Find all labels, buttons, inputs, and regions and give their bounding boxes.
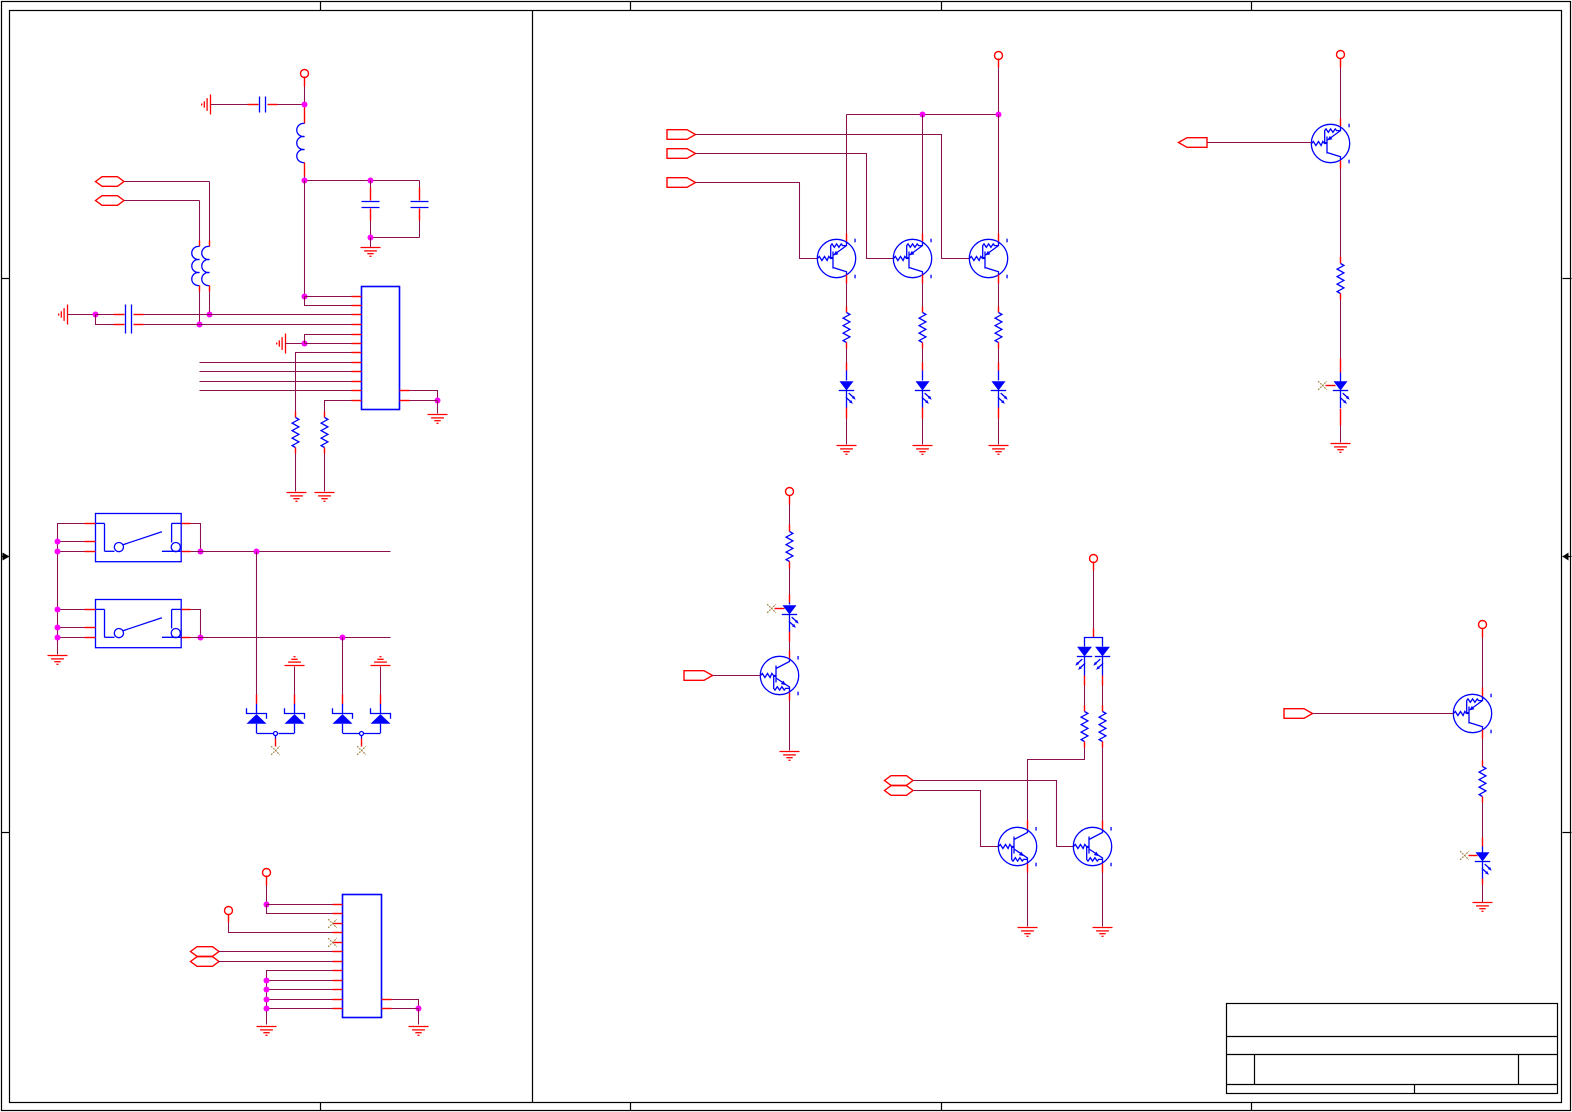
- wire: [199, 201, 201, 241]
- wire to U2 pin7: [219, 961, 333, 963]
- wire to U1 pin5: [305, 335, 352, 344]
- wire IN4 to Q4 base: [713, 675, 761, 677]
- resistor R6a: [1081, 712, 1088, 742]
- wire: [1340, 300, 1342, 359]
- no-connect X U2 pin5: [328, 938, 337, 947]
- wire to U2 pin6: [219, 951, 333, 953]
- wire U1 pin12 right: [410, 400, 438, 402]
- wire row to U1 pin3: [144, 314, 352, 316]
- wire U1 pin12 to R2: [325, 401, 352, 412]
- ground G16: [1331, 444, 1351, 453]
- wire: [125, 200, 200, 202]
- wire S1 output: [191, 551, 391, 553]
- port IN2: [667, 149, 696, 159]
- no-ERC X at LED D5: [767, 604, 776, 613]
- wire: [1482, 739, 1484, 761]
- LED D5: [789, 603, 791, 605]
- TVS diode D1a: [247, 704, 267, 733]
- resistor R7: [1337, 264, 1344, 294]
- power pin P4: [995, 52, 1003, 60]
- border zone ticks right: [1563, 279, 1572, 833]
- port PA1: [191, 947, 220, 957]
- port OUT1: [1179, 138, 1208, 148]
- resistor RQ2: [919, 313, 926, 343]
- TVS diode D2a: [333, 704, 353, 733]
- wire: [1027, 873, 1029, 927]
- wire: [58, 541, 85, 543]
- wire: [58, 609, 85, 611]
- junction: [264, 987, 270, 993]
- resistor R2 zigzag: [321, 418, 328, 448]
- TVS diode D1b: [285, 704, 305, 733]
- IC U2: [343, 895, 382, 1018]
- wire to Q2 collector: [922, 115, 924, 234]
- supply rail: [847, 114, 999, 116]
- port PA2: [191, 957, 220, 967]
- port IN4: [684, 671, 713, 681]
- ground G4: [277, 334, 286, 354]
- wire: [304, 177, 306, 181]
- port IN1: [667, 130, 696, 140]
- wire to U2 pin2: [267, 905, 333, 914]
- wire: [191, 524, 201, 552]
- wire: [58, 627, 85, 629]
- junction: [302, 178, 308, 184]
- wire PB1 to Q6 base: [914, 781, 1074, 847]
- switch S2: [96, 600, 182, 648]
- junction: [55, 607, 61, 613]
- wire IN3 to Q1 base: [696, 183, 818, 259]
- capacitor C4 (dual row feedthrough): [96, 305, 144, 334]
- junction: [435, 398, 441, 404]
- inductor L2: [199, 241, 201, 247]
- wire: [209, 292, 211, 315]
- junction: [302, 341, 308, 347]
- power pin P6: [1090, 555, 1098, 563]
- no-connect X below D1: [271, 746, 280, 755]
- wire: [96, 315, 106, 325]
- wire: [1340, 68, 1342, 119]
- junction: [198, 549, 204, 555]
- wire: [1084, 686, 1086, 706]
- ground G12: [409, 1027, 429, 1036]
- transistor Q6 (NPN digital): [1073, 827, 1111, 866]
- no-connect X U2 pin3: [328, 919, 337, 928]
- transistor Q8 (PNP digital): [1453, 694, 1491, 734]
- resistor R8: [1479, 767, 1486, 797]
- wire U2 pin10: [267, 989, 333, 991]
- border centerline arrow right: [1563, 553, 1572, 561]
- inductor L3 coil: [202, 246, 210, 285]
- junction: [264, 902, 270, 908]
- wire down to D1: [256, 552, 258, 695]
- wire: [266, 886, 268, 905]
- wire row9: [200, 371, 352, 373]
- wire: [789, 642, 791, 651]
- ground G9 above D1b: [285, 657, 305, 666]
- no-ERC X at LED D8: [1460, 851, 1469, 860]
- wire: [1482, 885, 1484, 903]
- resistor RQ3: [995, 313, 1002, 343]
- ground Q1: [837, 446, 857, 455]
- ground G10 above D2b: [371, 657, 391, 666]
- wire: [789, 701, 791, 751]
- wire to Q3 collector: [998, 115, 1000, 234]
- wire: [295, 454, 297, 492]
- title block: [1227, 1004, 1558, 1094]
- wire: [1482, 638, 1484, 688]
- junction: [264, 978, 270, 984]
- wire U1 pin7 to R1: [296, 353, 352, 412]
- wire: [1340, 169, 1342, 257]
- wire to U2 pin1: [267, 904, 333, 906]
- wire: [324, 454, 326, 492]
- junction: [55, 625, 61, 631]
- ground G6: [315, 493, 335, 502]
- transistor Q2 (PNP digital): [893, 239, 931, 279]
- ground G11: [257, 1027, 277, 1036]
- power pin P8: [1479, 621, 1487, 629]
- wire to Q5 collector: [1028, 748, 1085, 821]
- port OUT2: [1284, 709, 1313, 719]
- wire row to U1 pin4: [144, 324, 352, 326]
- sheet vertical divider: [532, 11, 534, 1103]
- junction: [996, 112, 1002, 118]
- wire to U1 pin2: [305, 297, 352, 306]
- wire OUT2 to Q8 base: [1313, 713, 1454, 715]
- border zone ticks bottom: [321, 1103, 1252, 1111]
- U2 right pins: [382, 1000, 392, 1009]
- wire: [998, 68, 1000, 115]
- wire: [68, 314, 96, 316]
- wire U1 pin11 right: [410, 391, 438, 401]
- U1 left pins: [352, 297, 362, 401]
- power pin P2: [263, 869, 271, 877]
- wire to U2 pin4: [229, 923, 333, 933]
- wire: [437, 401, 439, 414]
- junction: [264, 997, 270, 1003]
- wire: [125, 181, 210, 183]
- wire: [846, 419, 848, 445]
- wire: [846, 284, 848, 307]
- transistor Q1 (PNP digital): [817, 239, 855, 279]
- ground Q3: [989, 446, 1009, 455]
- S1 pins: [85, 524, 191, 552]
- wire: [199, 292, 201, 325]
- wire U2 right: [392, 1000, 419, 1009]
- wire to U1 pin1: [305, 296, 352, 298]
- wire to Q1 collector: [846, 115, 848, 234]
- wire: [58, 551, 85, 553]
- transistor Q4 (NPN digital): [760, 656, 798, 695]
- wire to Q6 collector: [1102, 748, 1104, 821]
- port ANT1: [96, 177, 125, 187]
- LED D6a: [1075, 647, 1092, 676]
- border zone ticks top: [321, 2, 1252, 11]
- transistor Q7 (PNP digital): [1311, 124, 1349, 164]
- wire: [371, 237, 420, 239]
- power pin P1: [301, 70, 309, 78]
- U2 left pins: [333, 905, 343, 1009]
- ground G2: [361, 248, 381, 257]
- junction: [198, 635, 204, 641]
- wire: [418, 1009, 420, 1025]
- wire U2 pin8 bus: [267, 971, 333, 1025]
- no-connect X below D2: [357, 746, 366, 755]
- LED D6b: [1093, 647, 1110, 676]
- border zone ticks left: [2, 279, 10, 833]
- power pin P7: [1337, 51, 1345, 59]
- LED DQ2: [922, 371, 924, 381]
- wire: [58, 637, 85, 639]
- ground G17: [1473, 903, 1493, 912]
- wire IN1 to Q3 base: [696, 135, 970, 259]
- ground G7: [428, 415, 448, 424]
- wire to U1 pin6: [305, 343, 352, 345]
- junction: [93, 312, 99, 318]
- wire: [789, 505, 791, 525]
- junction: [264, 1006, 270, 1012]
- power pin P3: [225, 907, 233, 915]
- wire: [370, 238, 372, 248]
- junction: [302, 102, 308, 108]
- wire: [922, 419, 924, 445]
- no-ERC X at LED D7: [1318, 381, 1327, 390]
- port PB1: [885, 776, 914, 786]
- wire: [998, 349, 1000, 363]
- power pin P5: [786, 488, 794, 496]
- wire U2 pin9: [267, 980, 333, 982]
- wire row11: [200, 390, 352, 392]
- transistor Q5 (NPN digital): [998, 827, 1036, 866]
- ground G1: [202, 95, 211, 115]
- wire: [1482, 803, 1484, 838]
- dual LED D6 bracket: [1085, 638, 1103, 647]
- wire: [789, 569, 791, 595]
- U1 right pins: [400, 391, 410, 401]
- wire row10: [200, 381, 352, 383]
- port IN3: [667, 178, 696, 188]
- wire: [304, 87, 306, 108]
- wire OUT1 to Q7 base: [1208, 142, 1312, 144]
- wire: [380, 667, 382, 695]
- junction: [197, 322, 203, 328]
- wire: [191, 610, 201, 638]
- junction: [254, 549, 260, 555]
- ground Q2: [913, 446, 933, 455]
- wire: [278, 104, 305, 106]
- LED DQ3: [998, 371, 1000, 381]
- inductor L3: [209, 241, 211, 247]
- resistor RQ1: [843, 313, 850, 343]
- wire down to U1: [304, 181, 306, 297]
- transistor Q3 (PNP digital): [969, 239, 1007, 279]
- wire: [1093, 571, 1095, 629]
- inductor L1 coil: [297, 123, 305, 162]
- wire IN2 to Q2 base: [696, 154, 894, 259]
- LED D7: [1340, 373, 1342, 382]
- wire: [846, 349, 848, 363]
- junction: [207, 312, 213, 318]
- wire: [1102, 873, 1104, 927]
- ground G14: [1018, 928, 1038, 937]
- junction: [302, 294, 308, 300]
- junction: [368, 235, 374, 241]
- junction: [920, 112, 926, 118]
- port PB2: [885, 786, 914, 796]
- wire: [294, 667, 296, 695]
- D1 common node: [257, 732, 295, 739]
- switch S1: [96, 514, 182, 562]
- junction: [55, 549, 61, 555]
- wire: [922, 349, 924, 363]
- resistor R2: [324, 412, 326, 418]
- ground G13: [780, 752, 800, 761]
- junction: [368, 178, 374, 184]
- wire row8: [200, 362, 352, 364]
- ground G15: [1093, 928, 1113, 937]
- port ANT2: [96, 196, 125, 206]
- ground G3: [59, 305, 68, 325]
- ground G8: [48, 656, 68, 665]
- junction: [340, 635, 346, 641]
- wire U2 pin11: [267, 999, 333, 1001]
- capacitor C1: [248, 97, 278, 113]
- capacitor C3: [411, 181, 429, 238]
- wire: [286, 343, 305, 345]
- inductor L1: [304, 108, 306, 124]
- wire PB2 to Q5 base: [914, 791, 999, 847]
- junction: [55, 635, 61, 641]
- wire: [209, 182, 211, 241]
- wire: [1340, 426, 1342, 443]
- wire: [922, 284, 924, 307]
- wire node to caps: [305, 180, 420, 182]
- resistor R6b: [1099, 712, 1106, 742]
- wire: [998, 284, 1000, 307]
- junction: [55, 539, 61, 545]
- LED DQ1: [846, 371, 848, 381]
- border centerline arrow left: [2, 553, 10, 561]
- LED D8: [1482, 847, 1484, 853]
- D2 common node: [343, 732, 381, 739]
- wire down to D2: [342, 638, 344, 695]
- wire U2 pin12: [267, 1008, 333, 1010]
- wire S2 output: [191, 637, 391, 639]
- wire: [211, 104, 248, 106]
- S2 pins: [85, 610, 191, 638]
- inductor L2 coil: [192, 246, 200, 285]
- IC U1: [362, 287, 400, 410]
- resistor R5: [786, 532, 793, 562]
- wire: [998, 419, 1000, 445]
- resistor R1: [295, 412, 297, 418]
- TVS diode D2b: [371, 704, 391, 733]
- wire: [1102, 686, 1104, 706]
- wire left bus: [58, 524, 85, 655]
- capacitor C2: [362, 181, 380, 238]
- resistor R1 zigzag: [292, 418, 299, 448]
- ground G5: [287, 493, 307, 502]
- wire: [392, 1008, 419, 1010]
- junction: [416, 1006, 422, 1012]
